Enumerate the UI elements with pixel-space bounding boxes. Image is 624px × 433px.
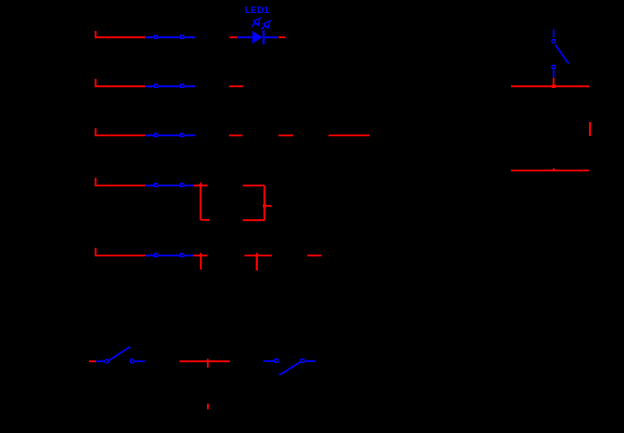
wire right top horizontal [511,85,590,87]
wire row1 right segment [279,36,286,38]
wire row5 tick right of junction [193,255,207,257]
junction row4 bracket [263,204,266,207]
wire row5 left horizontal [95,255,145,257]
junction bottom right [552,168,556,171]
switch SW1 [96,347,145,364]
wire switch to bus [553,78,555,87]
wire row4 left horizontal [95,185,145,187]
wire row5 T horizontal [244,255,271,257]
wire row4 tick right of junction [194,185,208,187]
wire row5 right segment [307,255,321,257]
wire row4 bracket mid tick [264,205,271,207]
wire bottom ground stub [207,404,209,410]
wire row2 left horizontal [95,85,145,87]
svg-text:LED1: LED1 [245,5,270,16]
wire row1 mid segment [230,36,238,38]
wire row4 bracket vertical [263,186,265,221]
wire right bottom horizontal [511,170,590,172]
wire row1 left horizontal [95,36,145,38]
wire row2 left stub [95,79,97,87]
contact S3 [145,134,195,137]
wire bottom middle horizontal [180,360,230,362]
junction row5 T [255,252,259,255]
wire row3 segment b [279,134,294,136]
LED LED1 [237,17,278,44]
wire bottom left segment [89,360,96,362]
wire row4 bracket top [243,185,265,187]
junction bottom T [206,358,210,361]
wire row5 T vertical [256,256,258,271]
wire bottom T vertical [207,361,209,367]
wire row5 left vertical [200,256,202,270]
wire row1 left stub [95,31,97,37]
wire row4 bracket bottom [243,219,265,221]
wire row3 segment a [229,134,243,136]
junction row5 left [199,252,203,255]
wire row4 vertical [200,186,202,220]
wire row3 segment c [329,134,370,136]
wire right vertical segment [589,122,591,136]
wire row3 left horizontal [95,134,145,136]
wire row4 bottom tick [201,219,210,221]
switch SW2 [263,359,315,374]
contact S2 [145,84,195,87]
contact S4 [145,184,194,187]
switch SW3 [552,29,570,78]
wire row2 right segment [229,85,243,87]
wire row3 left stub [95,128,97,135]
wire row5 left stub [95,248,97,256]
contact S1 [145,35,195,38]
wire row4 left stub [95,178,97,186]
junction top right [552,85,555,88]
junction row4 [199,182,203,185]
contact S5 [145,254,193,257]
